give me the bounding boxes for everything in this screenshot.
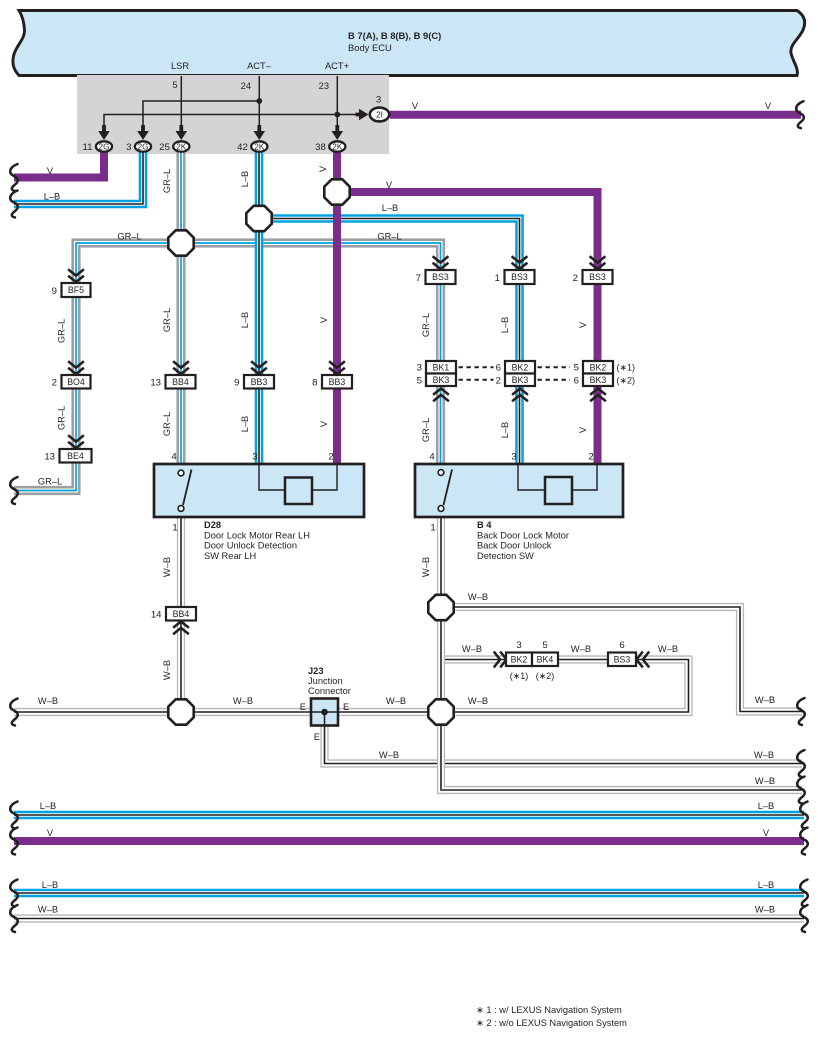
svg-text:2: 2 (573, 273, 578, 284)
chevron up into BK3 col1 (433, 389, 449, 402)
pin 24 lead from ACT- (258, 76, 260, 127)
svg-text:W–B: W–B (462, 644, 482, 654)
chevron into 13 BB4 (173, 361, 189, 374)
internal bus ACT- to pins 3/42 (143, 101, 259, 127)
pin 5 lead from LSR (180, 76, 182, 127)
svg-text:BK2: BK2 (511, 654, 528, 664)
svg-text:GR–L: GR–L (57, 319, 67, 343)
wire V from node to 2 BS3 (337, 192, 598, 273)
svg-text:Body ECU: Body ECU (348, 42, 392, 53)
svg-text:3: 3 (376, 95, 381, 106)
svg-text:38: 38 (315, 142, 326, 153)
wire V output from 2I to right break (390, 111, 801, 119)
svg-text:BK2: BK2 (590, 362, 607, 372)
svg-text:L–B: L–B (500, 317, 510, 334)
break W-B right upper (797, 698, 805, 725)
svg-text:Back Door Lock Motor: Back Door Lock Motor (477, 531, 569, 541)
wire W-B bus row (14, 914, 804, 922)
connector oval 2G pin 3 (135, 141, 151, 151)
break W-B bus left (10, 699, 18, 726)
svg-text:B 4: B 4 (477, 520, 492, 530)
wire L-B bus row 1 (14, 811, 804, 820)
svg-text:GR–L: GR–L (117, 232, 141, 242)
svg-text:2K: 2K (176, 142, 186, 151)
connector pair 6 BK2 / 2 BK3 (505, 361, 535, 374)
svg-text:D28: D28 (204, 520, 221, 530)
svg-text:L–B: L–B (44, 192, 61, 202)
svg-text:GR–L: GR–L (162, 308, 172, 332)
svg-text:9: 9 (52, 286, 57, 297)
connector 14 BB4 (166, 607, 196, 621)
svg-text:Connector: Connector (308, 686, 351, 696)
dashed link BK3-BK3 row2 right (538, 379, 571, 381)
chevron into 2 BS3 (590, 256, 606, 269)
svg-text:V: V (318, 165, 328, 172)
break V row left (10, 828, 18, 855)
svg-text:2K: 2K (332, 142, 342, 151)
D28 motor symbol (259, 464, 337, 504)
wire W-B from D28 pin 1 to ground bus (177, 517, 185, 712)
svg-text:14: 14 (151, 610, 162, 621)
svg-text:GR–L: GR–L (57, 406, 67, 430)
svg-text:ACT+: ACT+ (325, 61, 349, 71)
svg-text:6: 6 (496, 363, 501, 374)
svg-text:W–B: W–B (421, 557, 431, 577)
svg-text:L–B: L–B (758, 880, 775, 890)
svg-text:13: 13 (150, 378, 161, 389)
B4 switch symbol (438, 470, 452, 512)
svg-text:W–B: W–B (571, 644, 591, 654)
wire V column ECU 38 2K to D28 pin 2 (333, 150, 341, 465)
wire L-B column BS3 to B4 pin 3 (515, 272, 524, 465)
svg-text:23: 23 (319, 81, 329, 91)
svg-text:V: V (412, 101, 419, 111)
svg-text:13: 13 (44, 452, 55, 463)
svg-text:L–B: L–B (240, 416, 250, 433)
Body ECU block B7(A)/B8(B)/B9(C) (13, 11, 805, 76)
break V output right (796, 101, 804, 128)
svg-text:5: 5 (542, 640, 547, 651)
svg-text:BB3: BB3 (329, 377, 346, 387)
arrow into pin 25 2K (176, 125, 188, 140)
svg-text:GR–L: GR–L (421, 313, 431, 337)
component B4 Back Door Lock Motor (415, 464, 623, 517)
dashed link BK2-BK2 row1 right (538, 366, 571, 368)
svg-text:8: 8 (312, 378, 317, 389)
break V left (10, 164, 18, 191)
svg-text:1: 1 (430, 523, 435, 534)
arrow into pin 11 2G (98, 125, 110, 140)
wire GR-L from 13 BE4 to left break (14, 462, 76, 491)
svg-text:V: V (319, 420, 329, 427)
svg-text:W–B: W–B (162, 557, 172, 577)
splice node V (324, 179, 349, 204)
wire W-B between BK4 and BS3 (558, 655, 609, 663)
break L-B row1 right (800, 802, 808, 829)
break W-B right mid (797, 750, 805, 777)
svg-text:L–B: L–B (758, 801, 775, 811)
svg-text:1: 1 (172, 523, 177, 534)
pin 23 lead from ACT+ (336, 76, 338, 127)
svg-text:W–B: W–B (379, 750, 399, 760)
svg-text:3: 3 (511, 452, 516, 463)
chevron up into BK3 col3 (590, 389, 606, 402)
break L-B row1 left (10, 802, 18, 829)
connector oval 2G pin 11 (96, 141, 112, 151)
svg-text:V: V (386, 180, 393, 190)
svg-text:BE4: BE4 (67, 451, 84, 461)
svg-text:5: 5 (417, 376, 422, 387)
svg-text:BS3: BS3 (432, 272, 449, 282)
svg-text:BS3: BS3 (589, 272, 606, 282)
svg-text:W–B: W–B (162, 660, 172, 680)
connector 8 BB3 (322, 375, 352, 389)
wire L-B from ECU pin 3 2G to left break (14, 150, 143, 204)
chevron into BO4 (68, 361, 84, 374)
svg-text:GR–L: GR–L (38, 477, 62, 487)
svg-text:W–B: W–B (468, 696, 488, 706)
svg-text:Door Unlock Detection: Door Unlock Detection (204, 541, 297, 551)
svg-text:V: V (47, 166, 54, 176)
svg-text:BO4: BO4 (67, 377, 85, 387)
svg-text:4: 4 (171, 452, 177, 463)
break W-B row right (800, 905, 808, 932)
svg-text:3: 3 (516, 640, 521, 651)
wire W-B from B4 pin 1 to right break lower (441, 517, 802, 790)
svg-text:25: 25 (159, 142, 170, 153)
svg-text:ACT–: ACT– (247, 61, 272, 71)
svg-text:W–B: W–B (755, 695, 775, 705)
chevron into 8 BB3 (329, 361, 345, 374)
connector oval 2K pin 42 (251, 141, 267, 151)
svg-text:W–B: W–B (754, 750, 774, 760)
wire GR-L left column BF5 to BE4 (71, 284, 80, 462)
svg-text:V: V (578, 426, 588, 433)
svg-text:W–B: W–B (386, 696, 406, 706)
chevron up into 14 BB4 (173, 622, 189, 635)
break L-B row2 left (10, 880, 18, 907)
svg-text:42: 42 (237, 142, 248, 153)
junction dot ACT+ bus (334, 112, 340, 118)
wire L-B bus row 2 (14, 889, 804, 898)
wire GR-L node to 9 BF5 (76, 243, 181, 286)
svg-text:B 7(A), B 8(B), B 9(C): B 7(A), B 8(B), B 9(C) (348, 30, 441, 41)
svg-text:BK3: BK3 (590, 375, 607, 385)
svg-text:W–B: W–B (755, 905, 775, 915)
svg-text:L–B: L–B (40, 801, 57, 811)
svg-text:L–B: L–B (382, 203, 399, 213)
svg-text:2: 2 (52, 378, 57, 389)
svg-text:Junction: Junction (308, 676, 343, 686)
svg-text:BB3: BB3 (251, 377, 268, 387)
svg-text:E: E (314, 732, 320, 742)
component D28 Door Lock Motor Rear LH (154, 464, 364, 517)
wire L-B column ECU 42 2K to D28 pin 3 (255, 150, 264, 465)
svg-text:BK4: BK4 (537, 654, 554, 664)
svg-text:L–B: L–B (42, 880, 59, 890)
connector 6 BS3 ground (608, 653, 636, 667)
svg-text:W–B: W–B (755, 776, 775, 786)
connector 1 BS3 (505, 270, 535, 284)
connector 2 BO4 (62, 375, 91, 389)
chevron into BF5 (68, 269, 84, 282)
svg-text:V: V (319, 316, 329, 323)
svg-text:3: 3 (126, 142, 131, 153)
svg-text:(∗1): (∗1) (617, 363, 636, 373)
svg-text:11: 11 (83, 142, 93, 153)
break W-B row left (10, 905, 18, 932)
svg-text:2K: 2K (254, 142, 264, 151)
connector 7 BS3 (426, 270, 456, 284)
wire W-B from node to right break upper (441, 607, 802, 712)
svg-text:7: 7 (416, 273, 421, 284)
chevron into 9 BB3 (251, 361, 267, 374)
svg-text:(∗2): (∗2) (617, 376, 636, 386)
arrow into pin 42 2K (254, 125, 266, 140)
dashed link BK3-BK3 row2 (459, 379, 494, 381)
chevron into BS3 ground (637, 652, 650, 668)
svg-text:L–B: L–B (240, 171, 250, 188)
break L-B left (10, 191, 18, 218)
svg-text:V: V (578, 321, 588, 328)
break L-B row2 right (800, 880, 808, 907)
internal bus ACT+ to pins 11/38 and 2I (104, 115, 358, 128)
break W-B right lower (797, 777, 805, 804)
splice node L-B (246, 206, 271, 231)
svg-text:6: 6 (619, 640, 624, 651)
connector oval 2K pin 38 (329, 141, 345, 151)
svg-text:2: 2 (588, 452, 593, 463)
svg-text:BK2: BK2 (512, 362, 529, 372)
break V row right (800, 828, 808, 855)
svg-text:BS3: BS3 (614, 654, 631, 664)
svg-text:BB4: BB4 (172, 377, 189, 387)
svg-text:3: 3 (417, 363, 422, 374)
svg-text:BS3: BS3 (511, 272, 528, 282)
svg-text:BK3: BK3 (512, 375, 529, 385)
wire GR-L column ECU 25 2K to D28 pin 4 (176, 150, 185, 465)
svg-text:W–B: W–B (468, 592, 488, 602)
svg-text:2: 2 (328, 452, 333, 463)
svg-text:V: V (763, 828, 770, 838)
connector oval 2I pin 3 (370, 108, 389, 122)
svg-text:5: 5 (574, 363, 579, 374)
svg-text:W–B: W–B (658, 644, 678, 654)
wire V bus row (14, 837, 804, 845)
connector 2 BS3 (583, 270, 613, 284)
svg-text:GR–L: GR–L (162, 169, 172, 193)
junction dot ACT- bus (256, 98, 262, 104)
D28 switch symbol (178, 470, 191, 512)
chevron up into BK3 col2 (512, 389, 528, 402)
svg-text:J23: J23 (308, 666, 324, 676)
svg-text:1: 1 (495, 273, 500, 284)
connector 3 BK2 ground (506, 653, 532, 667)
svg-text:Door Lock Motor Rear LH: Door Lock Motor Rear LH (204, 531, 310, 541)
chevron into BK2 ground (494, 652, 507, 668)
chevron into BE4 (68, 435, 84, 448)
connector 13 BB4 (166, 375, 196, 389)
wire GR-L node to 7 BS3 (181, 243, 441, 273)
svg-text:6: 6 (574, 376, 579, 387)
arrow into pin 3 2G (137, 125, 149, 140)
svg-text:V: V (765, 101, 772, 111)
svg-text:BK1: BK1 (433, 362, 450, 372)
wire W-B from J23 E to right break (325, 712, 803, 764)
connector 9 BF5 (62, 283, 91, 297)
svg-text:V: V (47, 828, 54, 838)
svg-text:BF5: BF5 (68, 285, 84, 295)
svg-text:∗ 2 : w/o LEXUS Navigation Sys: ∗ 2 : w/o LEXUS Navigation System (476, 1018, 627, 1028)
svg-text:BK3: BK3 (433, 375, 450, 385)
svg-text:5: 5 (172, 80, 177, 90)
svg-text:BB4: BB4 (173, 609, 190, 619)
svg-text:SW Rear LH: SW Rear LH (204, 551, 256, 561)
svg-text:∗ 1 : w/ LEXUS Navigation Syst: ∗ 1 : w/ LEXUS Navigation System (476, 1005, 622, 1015)
svg-text:9: 9 (234, 378, 239, 389)
svg-text:W–B: W–B (38, 696, 58, 706)
splice node GR-L (168, 230, 193, 255)
wire V from ECU pin 11 2G to left break (14, 150, 104, 178)
svg-text:GR–L: GR–L (377, 232, 401, 242)
wire GR-L column BS3 to B4 pin 4 (436, 272, 445, 465)
ECU connector strip (gray) (77, 75, 389, 154)
connector pair 3 BK1 / 5 BK3 (426, 361, 456, 374)
wire L-B from node to 1 BS3 (259, 219, 520, 274)
svg-text:24: 24 (241, 81, 251, 91)
svg-text:(∗1): (∗1) (510, 671, 529, 681)
connector 13 BE4 (60, 449, 92, 463)
svg-text:E: E (343, 702, 349, 712)
connector pair 5 BK2 / 6 BK3 with notes (583, 361, 613, 374)
wire W-B ground bus row through J23 (14, 660, 689, 713)
wire V column BS3 to B4 pin 2 (594, 272, 602, 465)
connector 5 BK4 ground (532, 653, 558, 667)
svg-text:GR–L: GR–L (162, 412, 172, 436)
svg-text:Back Door Unlock: Back Door Unlock (477, 541, 552, 551)
svg-text:4: 4 (429, 452, 435, 463)
B4 motor symbol (518, 464, 597, 504)
arrow into pin 38 2K (332, 125, 344, 140)
svg-text:2G: 2G (99, 142, 110, 151)
svg-text:(∗2): (∗2) (536, 671, 555, 681)
connector 9 BB3 (244, 375, 274, 389)
svg-text:W–B: W–B (38, 905, 58, 915)
svg-text:2: 2 (496, 376, 501, 387)
svg-text:2I: 2I (376, 110, 383, 119)
svg-text:E: E (300, 702, 306, 712)
svg-text:W–B: W–B (233, 696, 253, 706)
svg-text:L–B: L–B (240, 312, 250, 329)
connector oval 2K pin 25 (173, 141, 189, 151)
dashed link BK1-BK2 row1 (459, 366, 494, 368)
svg-text:Detection SW: Detection SW (477, 551, 534, 561)
chevron into 7 BS3 (433, 256, 449, 269)
chevron into 1 BS3 (512, 256, 528, 269)
junction connector J23 (311, 699, 338, 726)
splice node W-B right (428, 699, 453, 724)
arrow into pin 3 2I (356, 109, 369, 121)
splice node W-B left (168, 699, 193, 724)
break GR-L left (10, 477, 18, 504)
wire W-B stub to BK2 connector (441, 655, 507, 663)
splice node W-B upper (428, 595, 453, 620)
svg-text:2G: 2G (138, 142, 149, 151)
svg-text:3: 3 (252, 452, 257, 463)
svg-text:LSR: LSR (171, 61, 189, 71)
svg-text:GR–L: GR–L (421, 418, 431, 442)
svg-text:L–B: L–B (500, 422, 510, 439)
